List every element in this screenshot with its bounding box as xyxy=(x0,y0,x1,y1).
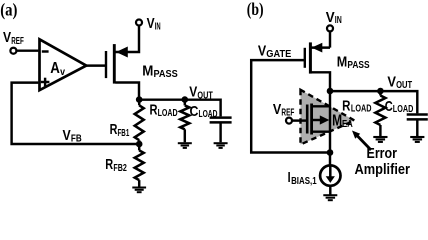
svg-text:EA: EA xyxy=(342,119,353,130)
svg-text:v: v xyxy=(60,67,65,78)
svg-text:V: V xyxy=(258,42,266,59)
svg-text:Amplifier: Amplifier xyxy=(355,162,411,178)
svg-text:LOAD: LOAD xyxy=(393,104,414,115)
svg-text:C: C xyxy=(190,103,199,120)
svg-text:LOAD: LOAD xyxy=(199,109,218,120)
svg-text:OUT: OUT xyxy=(197,90,212,101)
svg-text:(b): (b) xyxy=(247,0,264,19)
svg-text:LOAD: LOAD xyxy=(351,104,372,115)
svg-text:V: V xyxy=(189,84,197,101)
svg-text:M: M xyxy=(332,112,342,129)
svg-text:FB1: FB1 xyxy=(118,128,130,139)
svg-text:GATE: GATE xyxy=(266,49,291,60)
svg-text:V: V xyxy=(63,127,71,144)
svg-text:R: R xyxy=(105,156,113,173)
svg-text:V: V xyxy=(147,15,155,32)
svg-text:Error: Error xyxy=(367,146,398,162)
svg-text:R: R xyxy=(342,98,350,115)
svg-text:V: V xyxy=(273,101,281,118)
svg-text:FB2: FB2 xyxy=(113,163,127,174)
svg-text:PASS: PASS xyxy=(154,69,179,80)
svg-text:R: R xyxy=(150,101,158,118)
svg-text:LOAD: LOAD xyxy=(158,108,178,119)
svg-text:OUT: OUT xyxy=(396,80,412,91)
svg-text:IN: IN xyxy=(335,15,342,26)
svg-text:A: A xyxy=(50,60,60,77)
svg-text:V: V xyxy=(387,74,396,91)
svg-text:M: M xyxy=(337,54,348,71)
svg-text:FB: FB xyxy=(71,134,82,145)
svg-text:M: M xyxy=(142,62,153,79)
svg-text:IN: IN xyxy=(155,21,161,32)
svg-text:C: C xyxy=(385,98,393,115)
svg-text:PASS: PASS xyxy=(347,60,369,71)
svg-text:REF: REF xyxy=(11,36,24,47)
svg-text:(a): (a) xyxy=(0,0,17,19)
svg-text:R: R xyxy=(110,121,118,138)
svg-text:BIAS,1: BIAS,1 xyxy=(291,176,317,187)
svg-text:V: V xyxy=(326,9,335,26)
svg-text:V: V xyxy=(3,29,11,46)
